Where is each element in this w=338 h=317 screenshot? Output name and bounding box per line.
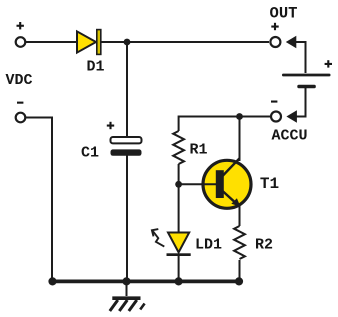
- node C: base junction: [175, 181, 182, 188]
- terminal: ACCU minus: [271, 112, 281, 122]
- node A: D1/C1/OUT junction: [124, 39, 131, 46]
- label: plus at battery: [325, 60, 332, 67]
- ground: [110, 281, 145, 311]
- wire: battery minus to ACCU arrow: [295, 88, 306, 117]
- label: plus at OUT: [271, 23, 278, 30]
- wire: C1 to ground rail: [126, 154, 128, 281]
- terminal: VDC minus: [16, 113, 26, 123]
- LED LD1: [152, 229, 191, 256]
- wire: T1 emitter down to R2: [239, 205, 241, 226]
- svg-text:ACCU: ACCU: [271, 128, 307, 145]
- terminal: input plus: [16, 37, 26, 47]
- wire: T1 collector up to node B: [239, 117, 241, 162]
- capacitor C1: [111, 137, 142, 156]
- wire: R1 bottom lead to base junction: [178, 164, 180, 184]
- node: rail C1/ground junction: [122, 277, 130, 285]
- wire: base junction down to LD1: [178, 184, 180, 233]
- svg-text:OUT: OUT: [270, 4, 298, 22]
- wire: D1 cathode to OUT terminal: [100, 41, 269, 43]
- label: plus at C1: [107, 122, 114, 129]
- svg-text:VDC: VDC: [6, 72, 33, 89]
- wire: node A down to C1: [126, 42, 128, 139]
- wire: R2 to ground rail: [239, 260, 241, 281]
- arrow into ACCU terminal: [286, 110, 297, 123]
- wire: R1 top rail to ACCU terminal: [179, 116, 270, 118]
- label: plus at input: [17, 22, 24, 29]
- resistor R2: [234, 226, 245, 259]
- wire: OUT arrow to battery plus: [295, 42, 306, 73]
- node: rail LD1 junction: [175, 277, 183, 285]
- node B: collector junction on top rail: [236, 113, 243, 120]
- svg-text:LD1: LD1: [195, 237, 222, 254]
- svg-text:D1: D1: [86, 58, 104, 75]
- label: minus at ACCU: [271, 101, 277, 103]
- terminal: OUT plus: [270, 37, 280, 47]
- ground rail (thick bottom wire): [53, 279, 240, 283]
- resistor R1: [173, 131, 184, 164]
- diode D1: [77, 30, 101, 55]
- svg-text:R1: R1: [190, 142, 208, 159]
- label: minus at VDC input: [17, 102, 23, 104]
- arrow into OUT terminal: [286, 36, 297, 49]
- node: rail R2 junction: [235, 277, 243, 285]
- wire: input + terminal to D1: [26, 41, 79, 43]
- svg-text:T1: T1: [260, 175, 279, 193]
- svg-text:C1: C1: [81, 145, 99, 162]
- wire: VDC minus terminal to ground rail: [26, 118, 52, 282]
- svg-text:R2: R2: [255, 237, 273, 254]
- wire: LD1 cathode to ground rail: [178, 255, 180, 281]
- battery B1 (ACCU): [282, 74, 331, 89]
- transistor T1: [179, 158, 251, 208]
- wire: R1 top lead: [178, 116, 180, 132]
- node: rail left junction: [48, 277, 56, 285]
